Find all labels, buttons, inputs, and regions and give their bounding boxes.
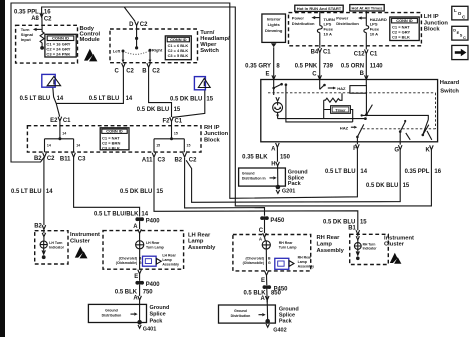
wire 0.35 GRY to hazard E xyxy=(273,47,275,79)
hazard lamp connector chevron xyxy=(276,97,279,101)
wire into G401 xyxy=(139,300,141,320)
connector chevron B1 xyxy=(356,230,360,234)
svg-text:0.5 ORN: 0.5 ORN xyxy=(341,63,364,69)
connector chevron B4/C1 xyxy=(318,48,322,52)
svg-text:0.5 DK BLU: 0.5 DK BLU xyxy=(170,96,202,102)
G contact xyxy=(400,121,410,144)
svg-text:B1: B1 xyxy=(348,225,356,231)
svg-text:Cluster: Cluster xyxy=(70,239,91,245)
svg-text:A: A xyxy=(133,224,138,230)
svg-text:D: D xyxy=(129,22,134,28)
svg-text:15: 15 xyxy=(174,131,178,135)
svg-text:Assembly: Assembly xyxy=(317,248,345,254)
wire 0.5 LT BLU to LH turn indicator B2 xyxy=(43,158,45,225)
chevron inside cluster xyxy=(42,229,45,236)
arrow from interior lights dimming xyxy=(271,43,277,47)
svg-text:Distribution: Distribution xyxy=(231,314,251,318)
svg-text:C3: C3 xyxy=(158,158,166,164)
svg-text:C2: C2 xyxy=(189,157,197,163)
connector P450 xyxy=(260,216,264,220)
label HAZ top xyxy=(328,87,333,89)
connector chevron E2/C1 xyxy=(58,117,62,121)
ground dot RH cluster xyxy=(356,257,360,261)
svg-text:Hazard: Hazard xyxy=(440,80,460,86)
svg-text:0.5 LT BLU/BLK: 0.5 LT BLU/BLK xyxy=(94,212,139,218)
svg-text:G: G xyxy=(268,261,271,265)
svg-text:C: C xyxy=(115,68,120,74)
wire 0.5 DK BLU from grid symbol to F2 C1 xyxy=(172,90,205,118)
LH rear turn lamp xyxy=(136,241,144,249)
svg-text:150: 150 xyxy=(280,154,291,160)
svg-text:LH Rear: LH Rear xyxy=(146,241,160,245)
wire D into switch xyxy=(136,26,138,48)
svg-text:0.5 DK BLU: 0.5 DK BLU xyxy=(137,107,169,113)
wire 0.5 LT BLU loop (hazard F around page to RH IP B2 C2) xyxy=(11,3,357,198)
svg-text:P400: P400 xyxy=(146,218,161,224)
svg-text:B11: B11 xyxy=(60,156,71,162)
node dot xyxy=(135,37,138,40)
connector chevron E hazard xyxy=(272,75,276,79)
svg-text:16: 16 xyxy=(434,169,441,175)
svg-text:0.5 DK BLU: 0.5 DK BLU xyxy=(366,183,398,189)
G402 ground distribution box xyxy=(219,305,276,323)
svg-text:LH Turn: LH Turn xyxy=(49,241,62,245)
svg-text:Input: Input xyxy=(21,37,32,42)
wire 0.5 BLK 850 xyxy=(266,289,268,302)
turn switch conn id table xyxy=(165,36,191,60)
svg-text:Lamp: Lamp xyxy=(188,239,204,245)
svg-text:14: 14 xyxy=(62,131,66,135)
arrow to power distribution 2 xyxy=(361,17,366,19)
ESD symbol RH cluster xyxy=(390,253,398,263)
svg-text:G: G xyxy=(394,147,399,153)
svg-text:Distribution: Distribution xyxy=(292,21,315,26)
wire right contact down xyxy=(149,50,151,60)
connector chevron F xyxy=(356,144,360,148)
svg-text:RH IP: RH IP xyxy=(204,125,220,131)
connector chevron A RH splice xyxy=(265,296,269,300)
svg-text:RH Rear: RH Rear xyxy=(317,235,341,241)
svg-text:H: H xyxy=(271,162,275,168)
wire to P450 xyxy=(266,275,268,285)
wire A8 into BCM xyxy=(41,17,43,29)
svg-text:850: 850 xyxy=(271,291,282,297)
connector chevron H xyxy=(276,162,280,166)
svg-text:C2: C2 xyxy=(152,68,160,74)
wire RH IP E2 internal xyxy=(45,121,74,152)
RH rear turn lamp xyxy=(262,241,270,249)
svg-text:(Chevrolet): (Chevrolet) xyxy=(246,256,264,260)
connector chevron B2 cluster xyxy=(42,225,46,229)
wire 0.5 ORN to hazard B xyxy=(365,46,367,80)
LH rear lamp assembly box xyxy=(103,231,184,270)
svg-text:C2: C2 xyxy=(47,156,55,162)
svg-text:F2: F2 xyxy=(162,118,170,124)
svg-text:C: C xyxy=(312,72,317,78)
svg-text:C3 = 24 PNK: C3 = 24 PNK xyxy=(46,52,70,57)
svg-text:1140: 1140 xyxy=(370,63,384,69)
svg-text:15: 15 xyxy=(174,107,181,113)
connector chevron G xyxy=(398,145,402,149)
wire 0.5 DK BLU B2 C2 to P450 C xyxy=(185,158,265,216)
svg-text:Ground: Ground xyxy=(150,305,170,311)
connector chevron B2/C2 right xyxy=(183,153,187,157)
G401 ground distribution box xyxy=(88,304,146,322)
svg-text:Assembly: Assembly xyxy=(188,245,216,251)
ground dot cluster xyxy=(42,255,46,259)
svg-text:Dimming: Dimming xyxy=(265,28,283,33)
svg-text:14: 14 xyxy=(141,212,148,218)
svg-text:14: 14 xyxy=(76,144,80,148)
wire 0.5 BLK 750 xyxy=(139,285,141,296)
turn/headlamp/wiper switch box xyxy=(110,29,198,63)
right feed line xyxy=(362,115,429,119)
connector P400 xyxy=(135,217,139,221)
svg-text:HAZ: HAZ xyxy=(340,125,349,130)
connector chevron B hazard xyxy=(365,75,369,79)
switch wiper dotted arc xyxy=(123,50,150,54)
svg-text:15: 15 xyxy=(360,220,367,226)
svg-text:Power: Power xyxy=(292,15,305,20)
svg-text:LH Rear: LH Rear xyxy=(188,232,211,238)
svg-text:Left: Left xyxy=(113,48,121,53)
RH turn indicator lamp xyxy=(354,243,361,250)
RH IP junction block box xyxy=(27,126,201,152)
svg-text:B4: B4 xyxy=(311,49,319,55)
wire 0.5 DK BLU A11 C3 to RH cluster B1 xyxy=(154,157,358,230)
svg-text:Timer: Timer xyxy=(335,108,346,112)
svg-text:15: 15 xyxy=(206,96,213,102)
svg-text:0.5 LT BLU: 0.5 LT BLU xyxy=(20,96,51,102)
svg-text:CONN ID: CONN ID xyxy=(106,129,123,134)
chevron below G201 dot xyxy=(276,190,280,194)
BCM conn id table xyxy=(45,34,76,57)
wire to LH IP xyxy=(365,11,367,13)
svg-text:C2: C2 xyxy=(140,22,148,28)
wire 0.5 PNK to hazard C xyxy=(319,46,321,80)
connector chevron A splice xyxy=(138,296,142,300)
svg-text:Block: Block xyxy=(204,137,221,143)
interior lights dimming box xyxy=(262,14,286,42)
fuse symbol HAZARD LPS xyxy=(364,26,369,33)
grid symbol LH rear (blue) xyxy=(143,256,157,266)
svg-text:LH IP: LH IP xyxy=(424,14,439,20)
resistor inside BCM xyxy=(40,29,44,46)
splice dot G402 xyxy=(265,319,270,324)
connector P450 lower xyxy=(263,285,267,289)
icon DESC box xyxy=(452,26,468,40)
grid symbol 1 (blue) xyxy=(42,74,55,87)
svg-text:14: 14 xyxy=(57,96,64,102)
svg-text:C3 = BLK: C3 = BLK xyxy=(102,145,120,150)
svg-text:Assembly: Assembly xyxy=(162,263,179,267)
svg-text:Switch: Switch xyxy=(200,48,219,54)
LH turn indicator lamp xyxy=(40,241,47,248)
connector chevron E RH xyxy=(265,271,269,275)
svg-text:0.5 LT BLU: 0.5 LT BLU xyxy=(11,189,42,195)
svg-text:(Oldsmobile): (Oldsmobile) xyxy=(243,261,264,265)
svg-text:Module: Module xyxy=(80,37,101,43)
chevron below G401 dot xyxy=(138,325,141,328)
flasher contact arm xyxy=(366,105,372,115)
svg-text:(Oldsmobile): (Oldsmobile) xyxy=(116,261,137,265)
svg-text:0.5 PNK: 0.5 PNK xyxy=(295,63,318,69)
svg-text:Turn Lamp: Turn Lamp xyxy=(279,246,297,250)
svg-text:Distribution: Distribution xyxy=(336,21,359,26)
svg-text:G402: G402 xyxy=(273,328,286,334)
secondary bus xyxy=(286,85,353,122)
svg-text:0.5 DK BLU: 0.5 DK BLU xyxy=(120,189,152,195)
junction E2 split xyxy=(58,137,61,140)
connector chevron K xyxy=(430,145,434,149)
wire RH IP F2 internal xyxy=(154,121,184,152)
svg-text:Turn Lamp: Turn Lamp xyxy=(146,246,164,250)
icon LOC box xyxy=(452,6,468,20)
node dot BCM xyxy=(40,46,44,50)
grid symbol 2 (blue) xyxy=(194,77,205,90)
resistor xyxy=(324,93,342,102)
wire 0.5 LT BLU from grid symbol to E2 C1 xyxy=(53,87,60,116)
connector chevron C12/C1 xyxy=(365,49,369,53)
mechanical link dashes xyxy=(268,93,436,129)
node dot xyxy=(135,46,138,49)
chevron below G402 dot xyxy=(266,324,269,327)
svg-text:0.35 GRY: 0.35 GRY xyxy=(245,63,271,69)
wire to RH turn indicator xyxy=(357,240,359,243)
svg-text:C2: C2 xyxy=(44,17,52,23)
wire P450 down xyxy=(264,220,266,233)
svg-text:Distribution: Distribution xyxy=(102,314,122,318)
RH IP conn id table xyxy=(100,128,129,150)
arrow to G201 splice xyxy=(270,177,274,179)
svg-text:C1: C1 xyxy=(175,118,183,124)
chevron inside RH cluster xyxy=(356,234,359,240)
wire to RH rear turn lamp xyxy=(264,237,267,241)
C contact xyxy=(320,80,325,90)
svg-text:Interior: Interior xyxy=(267,16,281,21)
svg-text:CONN ID: CONN ID xyxy=(396,18,413,23)
arrow to G401 splice xyxy=(131,313,135,315)
wire P400 to lamp box xyxy=(139,221,141,229)
svg-text:15: 15 xyxy=(403,183,410,189)
svg-text:0.5 LT BLU: 0.5 LT BLU xyxy=(325,169,356,175)
connector chevron A lamp xyxy=(138,229,142,233)
svg-text:RH Rear: RH Rear xyxy=(298,255,312,259)
wire into G402 xyxy=(266,300,268,319)
svg-text:B2: B2 xyxy=(175,157,183,163)
svg-text:Instrument: Instrument xyxy=(70,232,100,238)
body control module box xyxy=(16,25,78,63)
svg-text:Ground: Ground xyxy=(105,308,118,312)
connector chevron A11/C3 xyxy=(152,153,156,157)
svg-text:Pack: Pack xyxy=(279,319,293,325)
wire 0.35 BLK hazard A to G201 xyxy=(276,147,278,185)
svg-text:RH Rear: RH Rear xyxy=(279,241,293,245)
connector chevron C hazard xyxy=(318,75,322,79)
svg-text:Junction: Junction xyxy=(424,20,449,26)
ESD symbol BCM xyxy=(84,49,93,61)
svg-text:CONN ID: CONN ID xyxy=(52,36,69,41)
svg-text:K: K xyxy=(426,148,431,154)
svg-text:Block: Block xyxy=(424,27,441,33)
LH IP conn id table xyxy=(390,17,419,41)
wire left contact down xyxy=(122,51,124,60)
svg-text:Ground: Ground xyxy=(242,171,255,175)
svg-text:Lights: Lights xyxy=(268,22,281,27)
svg-text:Indicator: Indicator xyxy=(49,245,64,249)
arrow to power distribution xyxy=(315,17,320,19)
G201 ground distribution box xyxy=(239,168,286,186)
svg-text:14: 14 xyxy=(46,189,53,195)
svg-text:A11: A11 xyxy=(142,158,153,164)
RH instrument cluster box xyxy=(350,234,389,264)
svg-text:750: 750 xyxy=(143,290,154,296)
connector chevron B/C2 xyxy=(147,63,151,67)
K contact xyxy=(423,120,432,140)
svg-text:E: E xyxy=(261,278,265,284)
LH instrument cluster box xyxy=(35,231,68,264)
svg-text:(Chevrolet): (Chevrolet) xyxy=(119,256,137,260)
connector chevron A xyxy=(276,143,280,147)
wire to LH turn indicator xyxy=(43,237,45,241)
connector chevron F2/C1 xyxy=(170,117,174,121)
svg-text:C1: C1 xyxy=(323,49,331,55)
svg-text:0.35 BLK: 0.35 BLK xyxy=(242,154,268,160)
svg-text:C: C xyxy=(463,35,466,40)
wire to LH IP xyxy=(319,11,321,12)
timer leads xyxy=(324,110,353,122)
hazard illumination lamp xyxy=(273,103,283,113)
flasher loop xyxy=(350,86,367,94)
connector chevron E xyxy=(138,270,142,274)
hot in run and start box xyxy=(295,5,343,11)
svg-text:Hot At All Times: Hot At All Times xyxy=(352,6,384,11)
svg-text:Lamp: Lamp xyxy=(317,242,333,248)
connector chevron A8/C2 xyxy=(40,13,44,17)
LH IP junction block box xyxy=(289,13,422,46)
svg-text:Hot In RUN And START: Hot In RUN And START xyxy=(297,6,342,11)
chevron below indicator xyxy=(42,248,45,254)
F contact xyxy=(357,124,363,144)
svg-text:C1: C1 xyxy=(63,118,71,124)
E contact xyxy=(274,80,282,96)
svg-text:10 A: 10 A xyxy=(324,31,332,36)
HAZARD LPS fuse wire xyxy=(365,13,367,26)
chevron below RH indicator xyxy=(356,249,359,255)
wire to P400 xyxy=(139,274,141,281)
svg-text:14: 14 xyxy=(47,144,51,148)
lamp to junction w arrow xyxy=(277,112,279,118)
fuse symbol TURN LPS xyxy=(317,26,322,33)
resistor left lead down xyxy=(323,100,325,118)
arrow turn signal input xyxy=(36,28,42,30)
junction F2 split xyxy=(170,137,173,140)
svg-text:CONN ID: CONN ID xyxy=(170,37,187,42)
svg-text:Switch: Switch xyxy=(440,89,459,95)
grid symbol RH rear (blue) xyxy=(275,258,289,269)
svg-text:E2: E2 xyxy=(50,118,58,124)
svg-text:0.5 LT BLU: 0.5 LT BLU xyxy=(89,96,120,102)
svg-text:0.35 PPL: 0.35 PPL xyxy=(14,9,39,15)
svg-text:A8: A8 xyxy=(31,16,39,22)
flasher feed wire xyxy=(365,93,367,114)
svg-text:L: L xyxy=(454,8,457,13)
svg-text:B: B xyxy=(142,68,147,74)
svg-text:14: 14 xyxy=(360,169,367,175)
wire to LH rear turn lamp xyxy=(139,233,141,240)
wire lamp down xyxy=(265,249,267,271)
TURN LPS fuse wire xyxy=(319,13,321,26)
svg-text:B2: B2 xyxy=(34,223,42,229)
svg-text:Distribution In: Distribution In xyxy=(242,176,266,180)
wire 0.5 DK BLU turn switch B to F2 C1 xyxy=(149,67,172,117)
svg-text:HAZ: HAZ xyxy=(337,86,346,91)
RH rear lamp assembly box xyxy=(233,235,311,271)
hot at all times box xyxy=(350,5,384,11)
svg-text:Assembly: Assembly xyxy=(298,265,315,269)
svg-text:15: 15 xyxy=(156,189,163,195)
svg-text:A: A xyxy=(261,296,266,302)
connector chevron C/C2 xyxy=(122,63,126,67)
connector P400 lower xyxy=(135,281,139,285)
wire 0.5 DK BLU B2 C2 to hazard G xyxy=(186,150,400,203)
svg-text:C12: C12 xyxy=(354,51,366,57)
wire F down xyxy=(356,149,358,150)
wire 0.5 LT BLU/BLK B11 C3 to P400 xyxy=(74,157,140,216)
svg-text:16: 16 xyxy=(44,9,51,15)
connector chevron B2/C2 left xyxy=(43,153,47,157)
svg-text:E: E xyxy=(266,72,270,78)
svg-text:Ground: Ground xyxy=(234,309,247,313)
svg-text:Cluster: Cluster xyxy=(384,242,405,248)
svg-text:Lamp: Lamp xyxy=(162,258,171,262)
svg-text:B2: B2 xyxy=(34,156,42,162)
svg-text:Power: Power xyxy=(336,15,349,20)
contact dot left xyxy=(122,50,125,53)
svg-text:14: 14 xyxy=(126,96,133,102)
ESD symbol cluster xyxy=(75,246,84,257)
B wire into flasher xyxy=(365,80,367,86)
svg-text:C2: C2 xyxy=(126,68,134,74)
svg-text:739: 739 xyxy=(323,63,334,69)
svg-text:Right: Right xyxy=(152,48,163,53)
svg-text:0.35 PPL: 0.35 PPL xyxy=(405,169,430,175)
svg-text:P400: P400 xyxy=(146,282,161,288)
svg-text:Splice: Splice xyxy=(150,312,166,318)
arrow to G402 splice xyxy=(259,314,263,316)
svg-text:15: 15 xyxy=(156,144,160,148)
svg-text:C3: C3 xyxy=(78,156,86,162)
icon arrow box xyxy=(452,45,468,59)
wire 0.35 PPL (BCM A8 to turn switch D and hazard K) xyxy=(42,7,432,206)
timer box xyxy=(331,106,351,114)
svg-text:Junction: Junction xyxy=(204,131,229,137)
svg-text:P450: P450 xyxy=(270,218,285,224)
svg-text:15: 15 xyxy=(187,144,191,148)
svg-text:Pack: Pack xyxy=(150,319,164,325)
splice dot G401 xyxy=(137,320,142,325)
svg-text:Lamp: Lamp xyxy=(298,260,307,264)
svg-text:E: E xyxy=(134,274,138,280)
svg-text:Indicator: Indicator xyxy=(363,247,378,251)
svg-text:C3 = 5 BLK: C3 = 5 BLK xyxy=(168,53,189,58)
connector chevron D/C2 xyxy=(135,21,139,25)
svg-text:B: B xyxy=(360,71,365,77)
svg-text:C1: C1 xyxy=(370,51,378,57)
svg-text:LH Rear: LH Rear xyxy=(162,253,176,257)
svg-text:G201: G201 xyxy=(282,189,295,195)
svg-text:C3 = BLK: C3 = BLK xyxy=(392,34,410,39)
